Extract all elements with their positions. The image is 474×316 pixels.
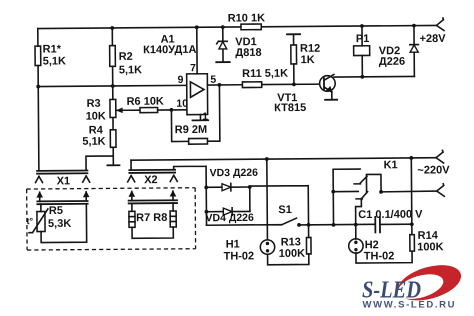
lamp H2 — [349, 239, 364, 254]
svg-text:S1: S1 — [278, 204, 292, 216]
relay contact K1 — [333, 169, 381, 225]
wire: diode bridge to S1 right — [250, 186, 309, 226]
node: R12 bottom junction — [292, 82, 296, 86]
wire: R6 to pin 10 node — [158, 109, 187, 111]
connector X1 plug half (module side) — [36, 191, 89, 204]
wire: H1 riser — [266, 159, 269, 240]
wire: P1 stubs — [361, 26, 363, 77]
wire: R2 column / R3 R4 chain — [85, 28, 113, 170]
node: H2 riser junction — [354, 223, 358, 227]
wire: pin 7 riser — [196, 27, 198, 73]
svg-text:R9 2М: R9 2М — [175, 124, 207, 136]
lamp H1 — [260, 240, 275, 255]
svg-text:R13: R13 — [281, 236, 301, 248]
resistor R1 — [35, 46, 41, 66]
svg-text:R5: R5 — [49, 205, 63, 217]
transistor VT1 — [320, 74, 336, 99]
svg-text:R12: R12 — [300, 43, 320, 55]
svg-text:5,1K: 5,1K — [82, 136, 105, 148]
node: C1 right / R14 junction — [410, 222, 414, 226]
svg-text:R11 5,1K: R11 5,1K — [242, 68, 288, 80]
svg-text:~220V: ~220V — [417, 164, 450, 176]
resistor R9 — [189, 138, 208, 144]
wire: H1/R13 loop — [267, 225, 309, 265]
resistor R12 — [291, 45, 297, 64]
node: VD3 anode junction — [204, 185, 208, 189]
svg-text:ТН-02: ТН-02 — [364, 250, 395, 262]
svg-text:R2: R2 — [119, 51, 133, 63]
ground: chassis bar under VT1 emitter — [325, 99, 337, 101]
svg-text:t°: t° — [26, 216, 33, 226]
wire: VD3/VD4 cathode column — [249, 187, 251, 211]
svg-text:WWW.S-LED.RU: WWW.S-LED.RU — [363, 300, 455, 311]
wire: H2 riser — [355, 225, 357, 239]
diode VD3 — [206, 183, 250, 191]
node: pin10 / R9 junction — [170, 108, 174, 112]
thermistor R5 — [29, 209, 48, 233]
wire: pin 5 output — [207, 84, 242, 86]
resistor R7 — [129, 211, 135, 227]
wiper arrow of R3 — [116, 109, 140, 111]
wire: mains riser (rail to C1 right) — [410, 158, 413, 224]
node: R2 bottom / second rail — [111, 84, 115, 88]
resistor R6 — [140, 108, 158, 113]
svg-text:10K: 10K — [86, 110, 106, 122]
svg-text:Д226: Д226 — [379, 56, 405, 68]
resistor R11 — [242, 82, 261, 88]
diode VD4 — [206, 208, 250, 216]
svg-text:R3: R3 — [87, 98, 101, 110]
node: R1 bottom / second rail — [36, 85, 40, 89]
svg-text:5,3K: 5,3K — [48, 218, 71, 230]
wire: X2 pin2 to VD3/VD4 column — [174, 166, 207, 225]
svg-text:+28V: +28V — [420, 33, 447, 45]
svg-text:R7 R8: R7 R8 — [136, 212, 167, 224]
node: K1 moving bar junction — [379, 190, 383, 194]
dashed enclosure: remote sensor box — [27, 188, 196, 250]
svg-text:ТН-02: ТН-02 — [224, 250, 255, 262]
node: H1 riser junction — [265, 157, 269, 161]
wire: R12 stubs — [293, 35, 295, 85]
wire: R11 to base — [262, 83, 323, 85]
resistor R2 — [110, 46, 116, 67]
resistor R10 — [241, 24, 261, 30]
potentiometer R3 — [110, 99, 116, 117]
svg-text:7: 7 — [190, 62, 196, 74]
node: VD4 anode junction — [205, 210, 209, 214]
resistor R14 — [410, 235, 415, 252]
node: VD1 junction — [221, 25, 225, 29]
node: op-amp pin7 junction — [195, 25, 199, 29]
wire: switched load wire (S1 right to C1) — [299, 223, 375, 226]
svg-text:1K: 1K — [301, 54, 315, 66]
capacitor C1 — [375, 217, 412, 233]
resistor R13 — [306, 237, 311, 254]
wire: left rail (R1 branch down to X1 pin1) — [38, 29, 39, 171]
wire: second rail to op-amp pin 9 — [38, 85, 186, 86]
svg-text:К140УД1А: К140УД1А — [143, 44, 196, 56]
node: C1/R14 riser junction — [409, 156, 413, 160]
wire: R5 module loop — [41, 204, 87, 243]
node: P1 top junction — [360, 24, 364, 28]
wire: collector to relay coil rail — [334, 75, 414, 78]
terminal: +28V fork — [436, 18, 444, 31]
svg-text:K1: K1 — [384, 159, 398, 171]
svg-text:R10 1K: R10 1K — [228, 12, 265, 24]
ground: chassis bar above R12 — [287, 33, 300, 35]
svg-text:R1*: R1* — [43, 43, 62, 55]
node: VD2 top junction — [412, 24, 416, 28]
svg-text:R6 10K: R6 10K — [127, 96, 164, 108]
terminal: ~220V fork lower — [437, 184, 445, 197]
svg-text:Д818: Д818 — [235, 47, 261, 59]
terminal: ~220V fork upper — [436, 150, 444, 163]
node: P1 bottom junction — [360, 75, 364, 79]
connector X2 socket half — [128, 170, 178, 182]
svg-text:H1: H1 — [226, 238, 240, 250]
wire: X2 pin1 stub — [130, 160, 132, 170]
resistor R4 — [110, 130, 116, 148]
node: K1 column junction — [332, 223, 336, 227]
svg-text:5: 5 — [210, 74, 216, 86]
switch S1 — [206, 218, 300, 227]
wire: 220V top rail — [131, 158, 436, 160]
svg-text:C1 0.1/400 V: C1 0.1/400 V — [358, 209, 423, 222]
zener diode VD1 — [217, 27, 228, 62]
op-amp A1 — [187, 74, 208, 115]
svg-text:VD3 Д226: VD3 Д226 — [210, 167, 259, 179]
logo: S-LED swoosh — [394, 259, 465, 307]
relay coil P1 — [354, 46, 370, 56]
ground: chassis bar under op-amp — [193, 119, 209, 121]
svg-text:100K: 100K — [417, 241, 443, 253]
svg-text:VD4 Д226: VD4 Д226 — [205, 212, 254, 224]
svg-text:5,1K: 5,1K — [43, 55, 66, 67]
svg-text:X1: X1 — [57, 175, 71, 187]
wire: pin 1 stub — [199, 115, 201, 120]
wire: R7/R8 module loop — [132, 203, 173, 238]
wire: +28V top rail — [38, 25, 437, 28]
connector X2 plug half (module side) — [128, 190, 177, 203]
svg-text:100K: 100K — [279, 248, 305, 260]
svg-text:X2: X2 — [144, 174, 158, 186]
wire: R9 feedback loop — [171, 85, 220, 142]
wire: H2/R14 loop — [356, 224, 412, 263]
svg-text:1: 1 — [202, 111, 208, 123]
node: S1 right riser junction — [307, 223, 311, 227]
svg-text:9: 9 — [177, 74, 183, 86]
ground: chassis bar under VD1 — [216, 61, 229, 63]
node: K1 fixed lead 2 junction — [331, 190, 335, 194]
resistor R8 — [170, 211, 176, 227]
connector X1 socket half — [35, 170, 89, 182]
ground: chassis bar under R4 — [107, 164, 119, 166]
svg-text:5,1K: 5,1K — [119, 64, 142, 76]
svg-text:R14: R14 — [418, 230, 439, 242]
node: R2 top junction — [110, 26, 114, 30]
node: VD3 cathode junction — [248, 185, 252, 189]
svg-text:КТ815: КТ815 — [274, 102, 306, 114]
node: output / R9 riser — [218, 83, 222, 87]
diode VD2 — [410, 26, 419, 77]
wire: K1 to lower mains terminal — [381, 190, 437, 193]
